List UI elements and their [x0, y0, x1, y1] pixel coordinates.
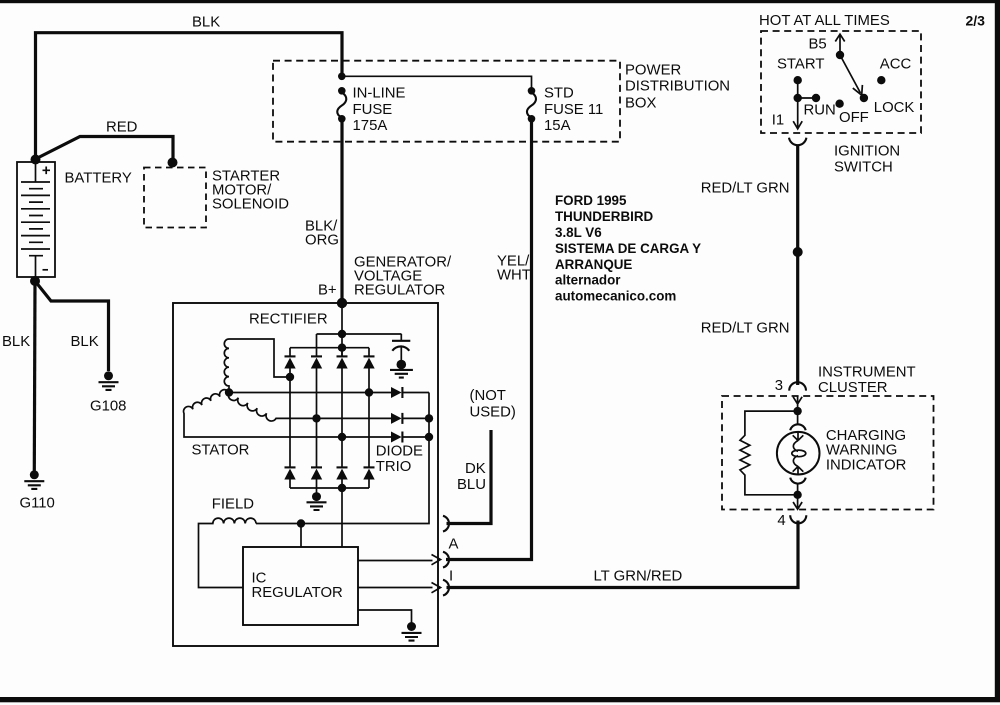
svg-text:A: A — [449, 536, 459, 552]
svg-text:15A: 15A — [544, 118, 571, 134]
svg-text:REGULATOR: REGULATOR — [252, 585, 344, 601]
svg-text:B5: B5 — [809, 36, 827, 52]
rectifier top bus 1 — [317, 334, 402, 348]
instrument cluster box — [722, 396, 934, 510]
wire branch to std fuse — [342, 76, 532, 88]
svg-text:IN-LINE: IN-LINE — [353, 86, 406, 102]
wire IC regulator A output — [358, 560, 433, 562]
wire IC regulator ground — [358, 610, 412, 623]
connector lamp bottom — [790, 478, 806, 484]
rectifier lower diode col3 — [336, 437, 347, 488]
svg-text:B+: B+ — [318, 282, 337, 298]
connector A at generator box — [443, 552, 449, 568]
svg-text:INSTRUMENT: INSTRUMENT — [818, 364, 916, 380]
svg-text:2/3: 2/3 — [966, 13, 986, 29]
page border top — [0, 0, 1000, 3]
rectifier lower diode col4 — [363, 393, 374, 489]
svg-text:4: 4 — [777, 513, 785, 529]
svg-text:ORG: ORG — [305, 232, 339, 248]
svg-text:HOT AT ALL TIMES: HOT AT ALL TIMES — [759, 13, 890, 29]
svg-text:IGNITION: IGNITION — [834, 143, 900, 159]
connector I1 — [789, 138, 806, 145]
svg-text:ARRANQUE: ARRANQUE — [555, 257, 632, 272]
svg-text:(NOT: (NOT — [470, 388, 506, 404]
arrow I output — [432, 583, 441, 593]
svg-text:REGULATOR: REGULATOR — [354, 282, 446, 298]
node B+ — [337, 298, 347, 308]
rectifier upper diode col3 — [336, 348, 347, 437]
wire B+ internal column 3 — [341, 303, 343, 356]
title block FORD 1995 — [555, 193, 701, 303]
node trio bus row2 — [425, 414, 433, 422]
svg-text:BATTERY: BATTERY — [65, 171, 132, 187]
rectifier lower diode col2 — [311, 418, 322, 488]
ground IC regulator — [402, 622, 422, 641]
svg-text:3.8L V6: 3.8L V6 — [555, 225, 602, 240]
wire pin3 into cluster with arrow — [793, 397, 802, 412]
wire pin4 out of cluster with arrow — [793, 495, 802, 509]
wire row1 to diode trio — [369, 392, 429, 394]
connector pin 4 — [790, 515, 806, 523]
battery symbol — [17, 162, 55, 277]
svg-text:STATOR: STATOR — [192, 442, 250, 458]
svg-text:BOX: BOX — [625, 95, 657, 111]
resistor branch — [740, 411, 798, 495]
node LOCK — [860, 94, 868, 102]
svg-text:automecanico.com: automecanico.com — [555, 288, 676, 303]
node START — [794, 76, 802, 84]
node RUN — [812, 94, 820, 102]
svg-text:DK: DK — [465, 461, 486, 477]
rectifier top bus 2 — [290, 347, 369, 349]
rectifier upper diode col1 — [284, 348, 295, 377]
node col2 stator phase3 — [312, 414, 320, 422]
svg-text:OFF: OFF — [839, 110, 869, 126]
starter motor/solenoid box — [144, 168, 206, 228]
wire lamp bottom lead — [797, 483, 799, 495]
svg-text:FUSE: FUSE — [353, 102, 393, 118]
svg-text:BLK: BLK — [2, 334, 30, 350]
diode trio D3 — [391, 432, 402, 443]
svg-text:LT GRN/RED: LT GRN/RED — [594, 568, 683, 584]
ground capacitor — [390, 360, 413, 378]
node field to IC regulator — [297, 519, 305, 527]
svg-text:LOCK: LOCK — [874, 100, 915, 116]
connector DK BLU at generator box — [443, 516, 449, 532]
rectifier lower diode col1 — [284, 377, 295, 488]
field winding — [199, 518, 257, 587]
ground G110 — [24, 470, 44, 489]
svg-text:3: 3 — [775, 378, 783, 394]
ignition switch B5 arrow up — [835, 34, 844, 55]
IC regulator box U1 — [243, 547, 358, 625]
wire DK BLU — [447, 430, 492, 524]
node stator center — [225, 388, 233, 396]
wire YEL/WHT std fuse down — [446, 120, 532, 560]
wire ignition to cluster — [796, 145, 799, 385]
wire RED battery-to-starter — [36, 137, 174, 162]
svg-text:alternador: alternador — [555, 272, 621, 287]
ignition switch box — [761, 31, 921, 133]
svg-text:FORD 1995: FORD 1995 — [555, 193, 627, 208]
node bus2 col3 — [338, 344, 346, 352]
node splice — [793, 247, 803, 257]
diode trio D2 — [391, 413, 402, 424]
svg-text:RED: RED — [106, 120, 138, 136]
connector pin 3 — [789, 382, 806, 390]
node battery negative — [30, 276, 40, 286]
svg-text:175A: 175A — [353, 118, 388, 134]
svg-text:STD: STD — [544, 86, 574, 102]
svg-text:SISTEMA DE CARGA Y: SISTEMA DE CARGA Y — [555, 241, 701, 256]
svg-text:POWER: POWER — [625, 62, 682, 78]
node lamp bottom — [793, 491, 801, 499]
node trio bus row3 — [425, 433, 433, 441]
svg-text:BLK: BLK — [192, 14, 220, 30]
page border right — [995, 0, 1000, 702]
stator windings — [184, 339, 369, 437]
wire BLK battery-to-fuse loop — [36, 33, 343, 160]
svg-text:FIELD: FIELD — [212, 496, 254, 512]
node starter terminal — [168, 158, 178, 168]
wire IC regulator I output — [358, 587, 433, 589]
connector lamp top — [790, 424, 806, 430]
page border bottom — [0, 697, 1000, 702]
svg-text:RECTIFIER: RECTIFIER — [249, 311, 328, 327]
fuse F1 in-line 175A — [337, 87, 346, 123]
rectifier upper diode col4 — [363, 348, 374, 393]
diode trio bus — [256, 393, 429, 524]
node fuse branch — [338, 73, 346, 81]
svg-text:SOLENOID: SOLENOID — [212, 197, 289, 213]
node col1 stator phase1 — [286, 373, 294, 381]
lamp charging warning indicator — [777, 432, 820, 475]
power distribution box — [273, 61, 620, 142]
wire battery neg to G108 — [35, 281, 109, 371]
wire START to I1 — [793, 80, 816, 129]
rectifier upper diode col2 — [311, 348, 322, 419]
svg-text:BLU: BLU — [457, 477, 486, 493]
wire LT GRN/RED — [447, 521, 799, 588]
svg-text:RED/LT GRN: RED/LT GRN — [701, 180, 790, 196]
svg-text:WHT: WHT — [497, 267, 531, 283]
svg-text:INDICATOR: INDICATOR — [826, 458, 907, 474]
ground G108 — [99, 371, 119, 390]
svg-text:I1: I1 — [772, 113, 784, 129]
svg-text:THUNDERBIRD: THUNDERBIRD — [555, 209, 654, 224]
arrow A output — [432, 555, 441, 565]
svg-text:DISTRIBUTION: DISTRIBUTION — [625, 78, 730, 94]
wire col3 to IC regulator — [341, 488, 343, 547]
node junction I1 — [794, 94, 802, 102]
ground rectifier bottom — [307, 488, 327, 510]
svg-text:FUSE 11: FUSE 11 — [544, 102, 603, 118]
capacitor C1 — [392, 334, 410, 361]
svg-text:I: I — [449, 568, 453, 584]
svg-text:START: START — [777, 57, 824, 73]
connector I at generator box — [443, 580, 449, 596]
svg-text:BLK: BLK — [71, 334, 99, 350]
wire BLK/ORG fuse to B+ — [340, 120, 343, 301]
node col3 stator phase2 — [338, 433, 346, 441]
node ACC — [877, 76, 885, 84]
svg-text:G110: G110 — [20, 496, 55, 512]
svg-text:ACC: ACC — [880, 57, 912, 73]
node col4 stator center row — [365, 388, 373, 396]
svg-text:RUN: RUN — [804, 103, 836, 119]
rectifier bottom bus — [290, 487, 369, 489]
svg-text:TRIO: TRIO — [376, 459, 412, 475]
wire row2 to diode trio — [317, 417, 430, 419]
ignition switch wiper arm — [840, 55, 862, 95]
diode trio D1 — [391, 387, 402, 398]
node lamp top — [793, 407, 801, 415]
svg-text:RED/LT GRN: RED/LT GRN — [701, 320, 790, 336]
svg-text:WARNING: WARNING — [826, 442, 897, 458]
node battery positive — [31, 155, 41, 165]
generator/voltage regulator box — [173, 303, 438, 646]
wire battery neg to G110 — [33, 281, 37, 471]
node bus1 col3 — [338, 330, 346, 338]
wire lamp top lead — [797, 411, 799, 424]
fuse F2 std 15A — [527, 87, 536, 123]
node bottom bus col3 — [338, 484, 346, 492]
wire row3 to diode trio — [342, 436, 429, 438]
node B5 — [836, 51, 844, 59]
node OFF — [835, 100, 843, 108]
svg-text:USED): USED) — [470, 404, 516, 420]
svg-text:SWITCH: SWITCH — [834, 159, 893, 175]
svg-text:G108: G108 — [90, 399, 126, 415]
wire field node to IC regulator — [300, 524, 302, 548]
svg-text:CLUSTER: CLUSTER — [818, 380, 888, 396]
svg-text:DIODE: DIODE — [376, 443, 423, 459]
